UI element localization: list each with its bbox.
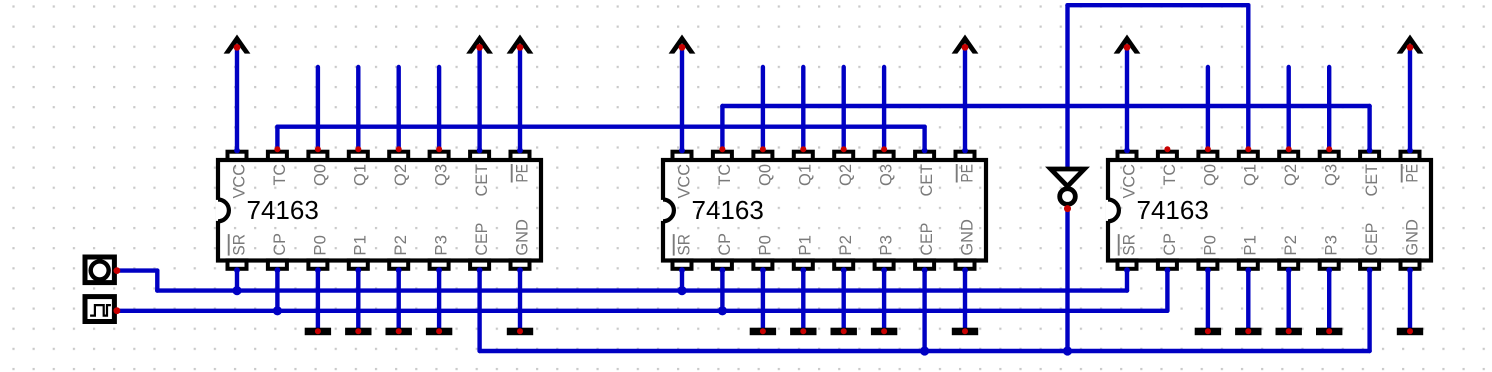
svg-text:Q1: Q1 [796,164,815,186]
svg-text:CP: CP [1160,233,1179,256]
svg-text:P2: P2 [836,235,855,256]
svg-text:CET: CET [1362,164,1381,197]
wire Q1 U1 stub [356,67,360,151]
pin label CEP U1 [472,223,491,256]
pin pad bottom CEP U2 [915,260,934,268]
wire CEP U1 vertical [477,270,481,351]
ground P3 U2 [871,328,897,336]
junction CP U2 [718,306,727,315]
pin label Q3 U2 [877,164,896,186]
pin label Q0 U1 [310,164,329,186]
pin label GND U2 [957,219,976,256]
pin pad top VCC U1 [228,152,247,160]
wire SR net horizontal [157,288,1127,292]
wire P2 U2 to ground [842,270,846,330]
pin pad bottom CP U2 [713,260,732,268]
wire P2 U1 to ground [397,270,401,330]
pin pad top Q2 U3 [1279,152,1298,160]
wire GND U2 to ground [963,270,967,330]
pin pad top Q0 U1 [308,152,327,160]
pin dot Q0 U3 [1205,146,1211,152]
pin pad bottom P1 U2 [794,260,813,268]
notch U3 [1106,200,1111,221]
pin label VCC U3 [1119,164,1138,199]
wire PE U2 to supply [963,47,967,151]
pin dot TC U1 [274,146,280,152]
svg-text:SR: SR [674,234,693,256]
pin pad bottom SR U1 [228,260,247,268]
svg-text:PE: PE [1402,164,1421,183]
svg-text:Q3: Q3 [1322,164,1341,186]
pin pad bottom P0 U2 [753,260,772,268]
pin label P2 U1 [391,235,410,256]
svg-text:P2: P2 [1281,235,1300,256]
wire TC U1 vertical [275,127,279,151]
wire Q2 U2 stub [842,67,846,151]
wire CEP U3 vertical [1367,270,1371,351]
pin pad top VCC U2 [673,152,692,160]
wire button output [117,268,157,272]
junction CEP U2 [920,346,929,355]
VCC symbol at U1 PE [507,35,534,54]
wire TC U2 vertical [720,106,724,151]
pin pad top Q3 U3 [1320,152,1339,160]
IC U3 74163 counter [1106,152,1431,269]
ground GND U1 [507,328,533,336]
pin pad top TC U1 [268,152,287,160]
svg-text:P1: P1 [796,235,815,256]
pin label Q2 U3 [1281,164,1300,186]
VCC symbol at U2 PE [952,35,979,54]
svg-text:CP: CP [270,233,289,256]
wire P3 U1 to ground [437,270,441,330]
svg-text:P3: P3 [1322,235,1341,256]
wire VCC U1 to supply [235,47,239,151]
svg-text:P2: P2 [391,235,410,256]
pin label CP U2 [715,233,734,256]
wire Q0 U3 stub [1206,67,1210,151]
wire P1 U2 to ground [801,270,805,330]
svg-text:74163: 74163 [247,195,319,225]
svg-text:P3: P3 [432,235,451,256]
svg-text:Q0: Q0 [755,164,774,186]
ground P0 U3 [1195,328,1221,336]
pin label P1 U2 [796,235,815,256]
pin label P3 U3 [1322,235,1341,256]
VCC symbol at U3 VCC [1114,35,1141,54]
pin pad bottom GND U2 [956,260,975,268]
svg-text:Q3: Q3 [432,164,451,186]
ground P1 U1 [345,328,371,336]
svg-text:Q2: Q2 [1281,164,1300,186]
pin pad bottom GND U1 [511,260,530,268]
pin dot TC U2 [719,146,725,152]
pin label VCC U2 [674,164,693,199]
svg-text:CET: CET [472,164,491,197]
pin label P2 U3 [1281,235,1300,256]
ground GND U3 [1397,328,1423,336]
pin pad bottom SR U2 [673,260,692,268]
pin label P0 U2 [755,235,774,256]
wire P1 U3 to ground [1246,270,1250,330]
wire top rail Q1 U3 to inverter [1068,3,1249,7]
svg-text:CEP: CEP [1362,223,1381,256]
pin label Q3 U3 [1322,164,1341,186]
pin label P1 U1 [351,235,370,256]
wire Q3 U1 stub [437,67,441,151]
pin label P2 U2 [836,235,855,256]
pin pad bottom P2 U2 [834,260,853,268]
pin pad top Q2 U2 [834,152,853,160]
svg-text:TC: TC [270,164,289,186]
wire inverter input vertical [1065,5,1069,169]
VCC symbol at U1 CET [466,35,493,54]
ground P1 U3 [1235,328,1261,336]
svg-text:CET: CET [917,164,936,197]
pin pad bottom P3 U2 [875,260,894,268]
svg-text:SR: SR [229,234,248,256]
pin label P0 U3 [1200,235,1219,256]
wire Q3 U2 stub [882,67,886,151]
pin label Q2 U2 [836,164,855,186]
input button S1 [85,257,120,283]
notch U1 [216,200,221,221]
svg-text:P1: P1 [351,235,370,256]
VCC symbol at U2 VCC [669,35,696,54]
svg-text:74163: 74163 [692,195,764,225]
ground P3 U1 [426,328,452,336]
wire end caps at pads [234,148,1413,274]
pin label CP U1 [270,233,289,256]
svg-text:GND: GND [1402,219,1421,256]
ground P0 U1 [305,328,331,336]
svg-text:P0: P0 [755,235,774,256]
pin pad bottom P2 U1 [389,260,408,268]
pin pad bottom CP U1 [268,260,287,268]
wire Q0 U1 stub [316,67,320,151]
pin label PE U1 [512,164,532,183]
pin label Q0 U2 [755,164,774,186]
wire P3 U3 to ground [1327,270,1331,330]
ground P3 U3 [1316,328,1342,336]
pin label P1 U3 [1241,235,1260,256]
pin pad top Q2 U1 [389,152,408,160]
ground GND U2 [952,328,978,336]
pin label TC U2 [715,164,734,186]
svg-text:TC: TC [715,164,734,186]
pin pad top PE U1 [511,152,530,160]
pin pad top Q3 U2 [875,152,894,160]
pin label Q1 U2 [796,164,815,186]
wire CEP U2 vertical [922,270,926,351]
notch U2 [661,200,666,221]
svg-text:P1: P1 [1241,235,1260,256]
pin pad top TC U3 [1158,152,1177,160]
svg-text:CEP: CEP [472,223,491,256]
wire P3 U2 to ground [882,270,886,330]
IC U2 74163 counter [661,152,986,269]
wire GND U1 to ground [518,270,522,330]
pin label TC U3 [1160,164,1179,186]
wire P0 U1 to ground [316,270,320,330]
pin pad bottom P1 U3 [1239,260,1258,268]
pin dot Q1 U1 [355,146,361,152]
wire button corner down [155,271,159,291]
VCC symbol at U3 PE [1397,35,1424,54]
wire P1 U1 to ground [356,270,360,330]
pin pad top VCC U3 [1118,152,1137,160]
junction SR U1 [232,286,241,295]
svg-text:VCC: VCC [1119,164,1138,199]
wire CP U1 vertical [275,270,279,311]
pin pad bottom CP U3 [1158,260,1177,268]
pin pad bottom P0 U1 [308,260,327,268]
junction SR U2 [677,286,686,295]
pin pad bottom P3 U1 [430,260,449,268]
pin label SR U1 [229,234,249,256]
pin dot Q3 U1 [436,146,442,152]
pin pad bottom SR U3 [1118,260,1137,268]
pin pad bottom P0 U3 [1198,260,1217,268]
pin label CET U3 [1362,164,1381,197]
pin label CET U1 [472,164,491,197]
svg-text:P0: P0 [310,235,329,256]
pin dot Q2 U1 [396,146,402,152]
svg-text:GND: GND [957,219,976,256]
pin label VCC U1 [229,164,248,199]
pin label SR U2 [674,234,694,256]
wire CP U2 vertical [720,270,724,311]
pin dot Q1 U3 [1245,146,1251,152]
pin dot Q3 U3 [1326,146,1332,152]
ground P2 U2 [831,328,857,336]
svg-text:P3: P3 [877,235,896,256]
pin label GND U3 [1402,219,1421,256]
wire Q1 U3 to top rail [1246,5,1250,151]
wire TC U1 to CET U2 [277,124,924,128]
pin pad top Q1 U1 [349,152,368,160]
svg-text:Q3: Q3 [877,164,896,186]
clock input C1 [85,297,120,322]
pin pad top TC U2 [713,152,732,160]
pin dot Q2 U2 [841,146,847,152]
svg-text:Q1: Q1 [351,164,370,186]
svg-text:GND: GND [512,219,531,256]
pin label Q2 U1 [391,164,410,186]
pin pad bottom P2 U3 [1279,260,1298,268]
pin label PE U3 [1402,164,1422,183]
pin pad top PE U2 [956,152,975,160]
IC body U3 [1108,160,1431,261]
ground P2 U1 [386,328,412,336]
pin pad top CET U3 [1360,152,1379,160]
wire CET U1 to supply [477,47,481,151]
IC body U1 [218,160,541,261]
wire TC U2 to CET U3 [722,104,1369,108]
svg-text:CP: CP [715,233,734,256]
pin dot Q2 U3 [1286,146,1292,152]
wire PE U1 to supply [518,47,522,151]
pin dot Q0 U1 [315,146,321,152]
wire SR U1 vertical [235,270,239,290]
pin label Q3 U1 [432,164,451,186]
pin label P0 U1 [310,235,329,256]
pin label TC U1 [270,164,289,186]
svg-text:Q2: Q2 [391,164,410,186]
wire CP U3 vertical [1165,270,1169,311]
wire CET U2 vertical [922,127,926,151]
pin label GND U1 [512,219,531,256]
wire P0 U3 to ground [1206,270,1210,330]
wire Q1 U2 stub [801,67,805,151]
pin label PE U2 [957,164,977,183]
pin label CET U2 [917,164,936,197]
IC body U2 [663,160,986,261]
junction CP U1 [273,306,282,315]
pin pad bottom CEP U3 [1360,260,1379,268]
pin dot TC U3 [1164,146,1170,152]
svg-text:Q0: Q0 [310,164,329,186]
svg-text:PE: PE [512,164,531,183]
pin label Q1 U1 [351,164,370,186]
pin label CP U3 [1160,233,1179,256]
wire Q2 U1 stub [397,67,401,151]
wire SR U3 vertical [1125,270,1129,290]
svg-text:Q0: Q0 [1200,164,1219,186]
pin label P3 U2 [877,235,896,256]
pin pad top CET U1 [470,152,489,160]
wire VCC U2 to supply [680,47,684,151]
wire CET U3 vertical [1367,106,1371,151]
wire Q3 U3 stub [1327,67,1331,151]
pin label Q0 U3 [1200,164,1219,186]
pin pad bottom P1 U1 [349,260,368,268]
svg-text:TC: TC [1160,164,1179,186]
wire inverter output vertical [1065,206,1069,351]
wire GND U3 to ground [1408,270,1412,330]
pin pad bottom CEP U1 [470,260,489,268]
pin pad bottom P3 U3 [1320,260,1339,268]
svg-text:Q2: Q2 [836,164,855,186]
pin label Q1 U3 [1241,164,1260,186]
pin pad bottom GND U3 [1401,260,1420,268]
svg-text:Q1: Q1 [1241,164,1260,186]
VCC symbol at U1 VCC [224,35,251,54]
pin dot Q0 U2 [760,146,766,152]
pin pad top CET U2 [915,152,934,160]
wire clock net horizontal [117,309,1168,313]
svg-text:CEP: CEP [917,223,936,256]
pin pad top PE U3 [1401,152,1420,160]
svg-text:74163: 74163 [1137,195,1209,225]
wire CEP net horizontal [480,349,1370,353]
wire Q2 U3 stub [1286,67,1290,151]
wire P0 U2 to ground [761,270,765,330]
wire Q0 U2 stub [761,67,765,151]
pin dot Q1 U2 [800,146,806,152]
IC U1 74163 counter [216,152,541,269]
wire SR U2 vertical [680,270,684,290]
ground P2 U3 [1276,328,1302,336]
pin pad top Q1 U2 [794,152,813,160]
pin label P3 U1 [432,235,451,256]
pin label SR U3 [1119,234,1139,256]
inverter U4 (drives CEP line from Q1 U3) [1051,169,1085,212]
junction CEP inverter [1063,346,1072,355]
wire PE U3 to supply [1408,47,1412,151]
wire P2 U3 to ground [1286,270,1290,330]
pin pad top Q1 U3 [1239,152,1258,160]
ground P0 U2 [750,328,776,336]
pin dot Q3 U2 [881,146,887,152]
svg-text:VCC: VCC [674,164,693,199]
wire VCC U3 to supply [1125,47,1129,151]
svg-text:SR: SR [1119,234,1138,256]
svg-text:PE: PE [957,164,976,183]
ground P1 U2 [790,328,816,336]
pin pad top Q0 U2 [753,152,772,160]
pin label CEP U3 [1362,223,1381,256]
svg-text:VCC: VCC [229,164,248,199]
pin pad top Q0 U3 [1198,152,1217,160]
pin pad top Q3 U1 [430,152,449,160]
svg-text:P0: P0 [1200,235,1219,256]
pin label CEP U2 [917,223,936,256]
